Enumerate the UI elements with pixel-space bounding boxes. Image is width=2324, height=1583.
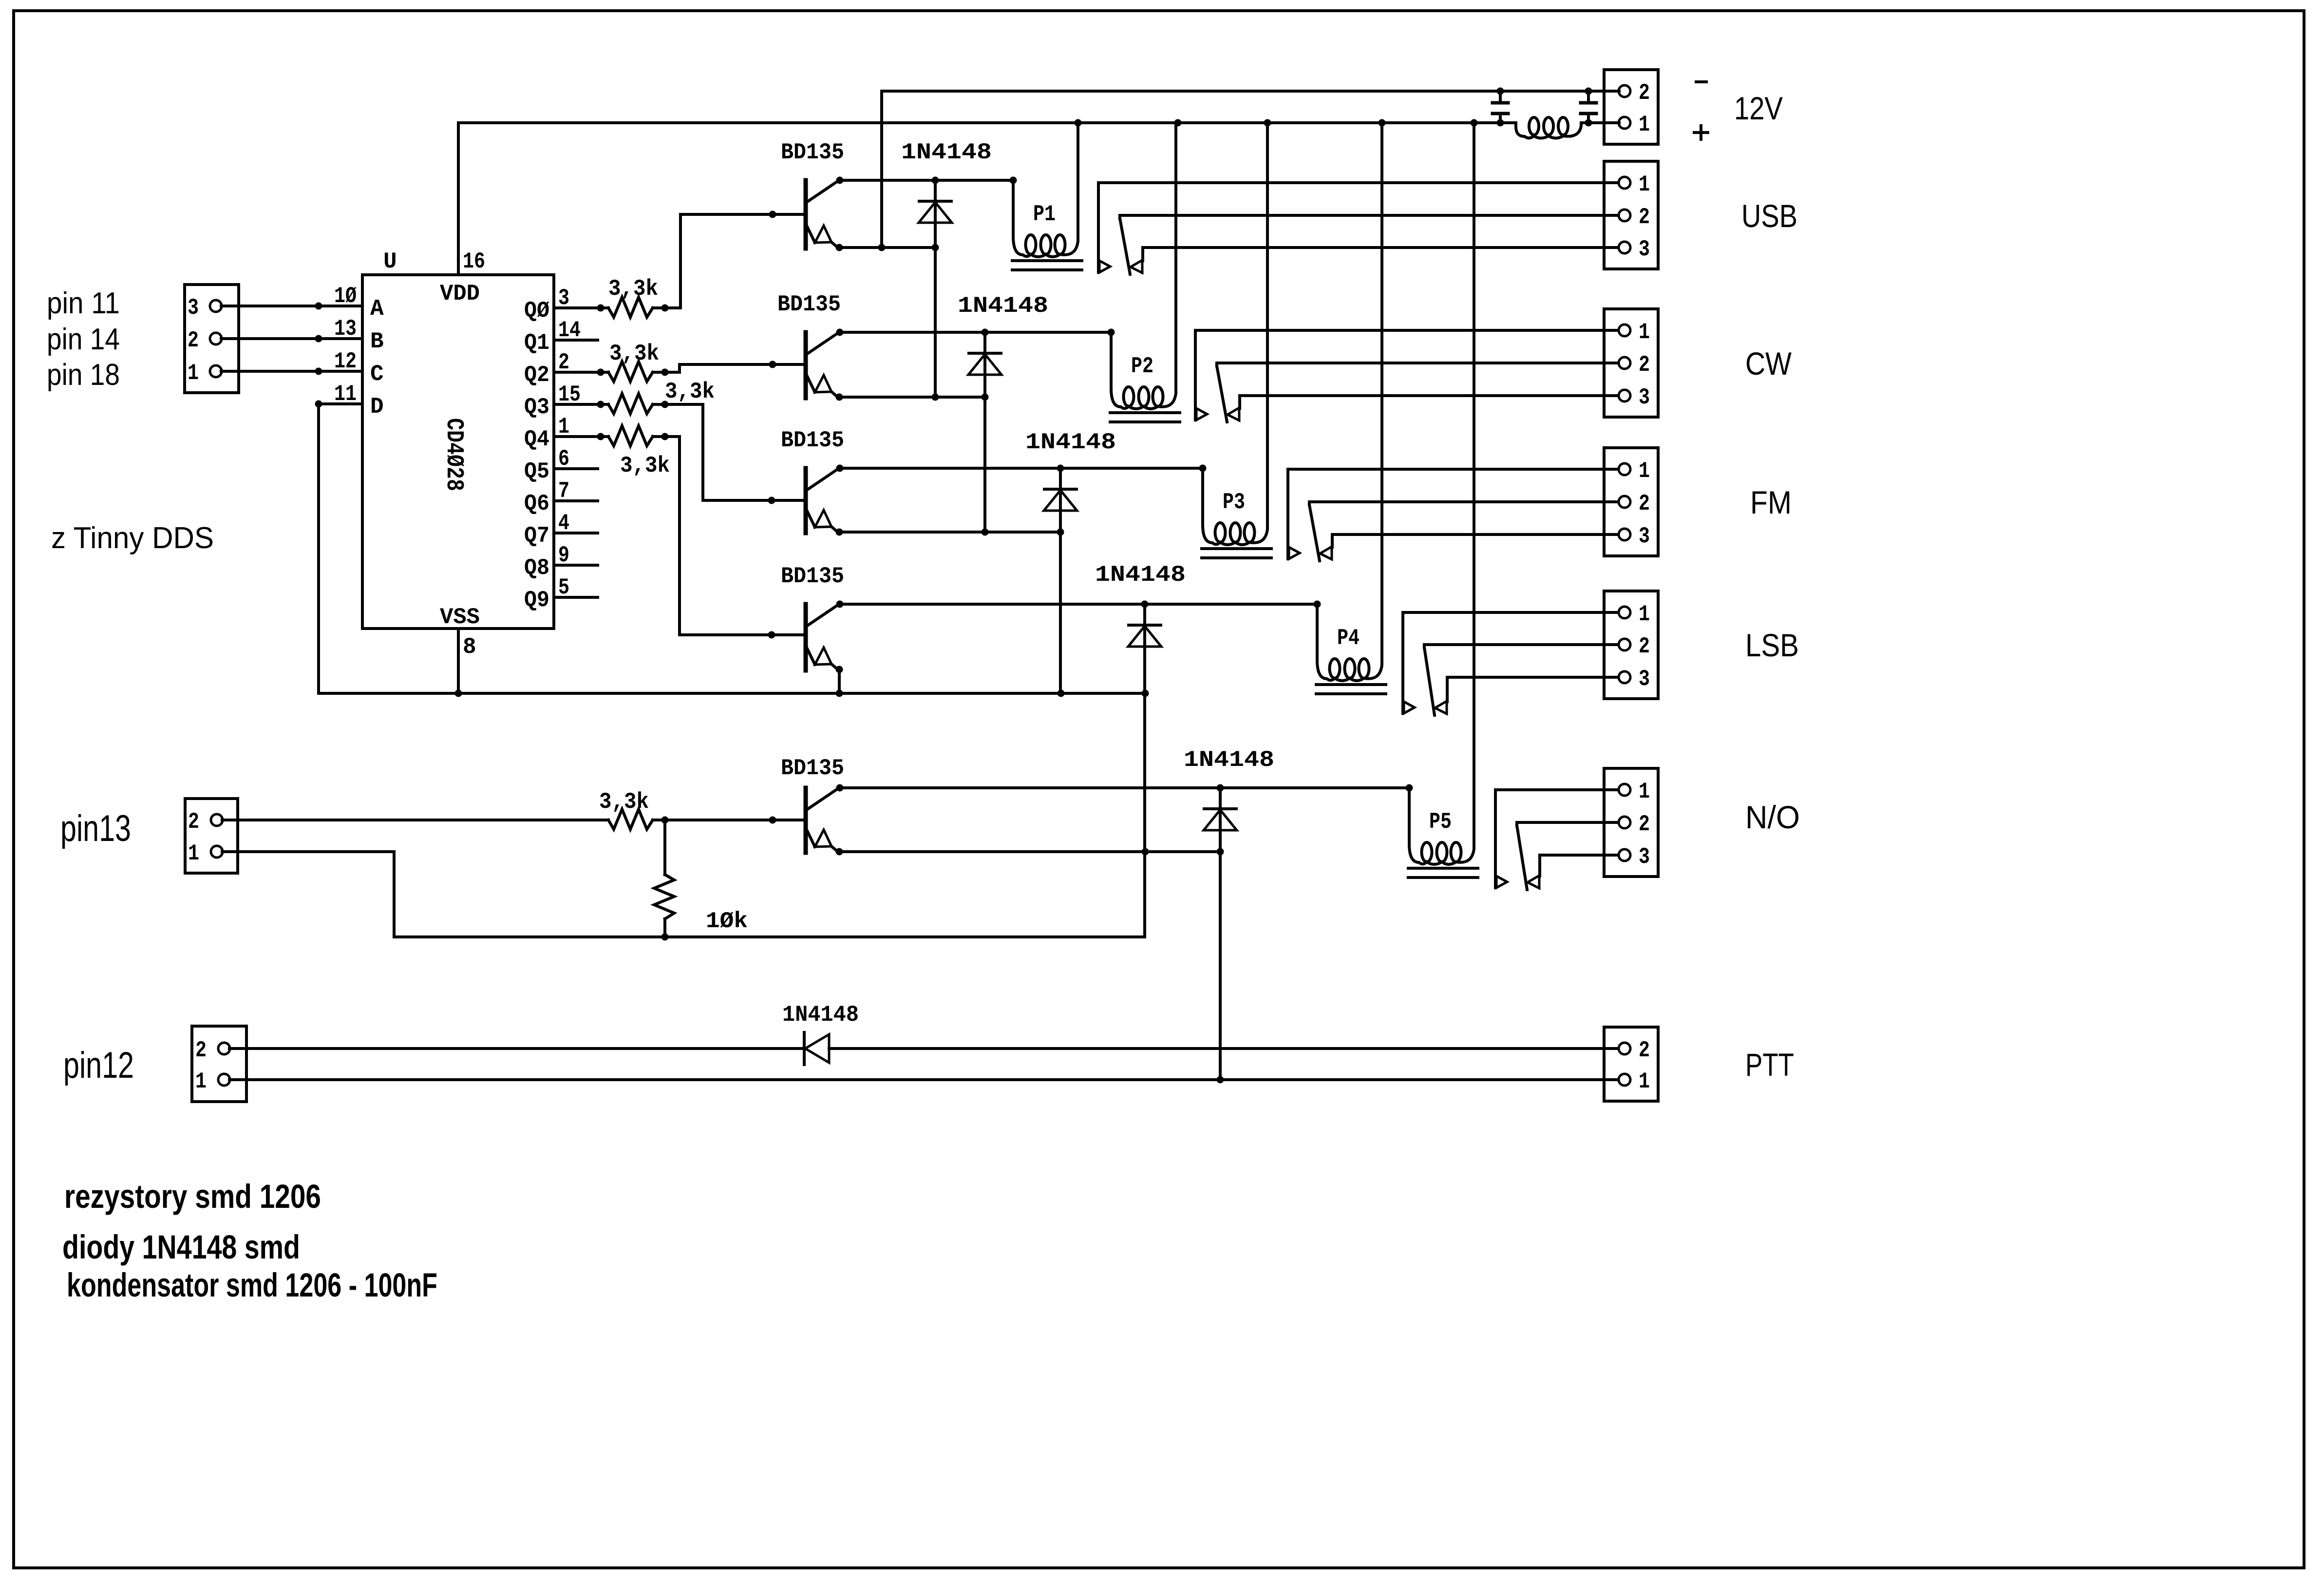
- svg-text:FM: FM: [1750, 484, 1792, 520]
- svg-text:CD4Ø28: CD4Ø28: [440, 418, 468, 491]
- capacitor C1 100nF: [1493, 91, 1508, 123]
- wire Q5 collector to P5: [840, 784, 1413, 792]
- label 12V: [1734, 90, 1783, 126]
- connector FM: [1604, 448, 1658, 556]
- svg-text:1Øk: 1Øk: [706, 909, 748, 934]
- label pin13: [60, 808, 131, 849]
- svg-text:P3: P3: [1223, 490, 1245, 515]
- svg-text:2: 2: [188, 809, 199, 835]
- wire Q1 stub: [554, 339, 598, 342]
- wires P2 contact to CW: [1195, 330, 1619, 396]
- wire pin13-1 loop: [222, 852, 1144, 937]
- connector pin12: [192, 1026, 246, 1102]
- svg-text:Q1: Q1: [524, 330, 549, 356]
- svg-text:BD135: BD135: [781, 140, 844, 165]
- svg-text:U: U: [383, 249, 397, 274]
- wire D / VSS ground bus: [315, 401, 1149, 697]
- svg-text:PTT: PTT: [1745, 1047, 1794, 1083]
- label LSB: [1745, 627, 1799, 663]
- diode D4 1N4148: [1095, 562, 1186, 937]
- svg-text:z Tinny DDS: z Tinny DDS: [51, 521, 214, 555]
- svg-text:QØ: QØ: [524, 298, 549, 324]
- svg-text:D: D: [370, 394, 384, 420]
- svg-text:2: 2: [1639, 634, 1650, 659]
- svg-text:2: 2: [1639, 205, 1650, 230]
- svg-text:1N4148: 1N4148: [901, 140, 992, 165]
- wire Q2 emitter: [839, 394, 989, 401]
- transistor Q3 BD135: [781, 428, 844, 536]
- svg-text:pin 18: pin 18: [47, 358, 120, 392]
- svg-text:13: 13: [334, 316, 357, 342]
- svg-text:2: 2: [1639, 491, 1650, 516]
- diode D2 1N4148: [958, 293, 1048, 532]
- wire R4 to Q4 base: [680, 437, 804, 639]
- label pin12: [63, 1045, 134, 1086]
- relay coil P1: [1012, 119, 1082, 270]
- resistor R4 3,3k: [608, 426, 680, 478]
- wire Q0: [554, 305, 608, 312]
- wire Q4: [554, 433, 608, 440]
- svg-text:P4: P4: [1337, 626, 1360, 651]
- wire A: [221, 303, 362, 310]
- connector CW: [1604, 309, 1658, 417]
- svg-text:BD135: BD135: [781, 428, 844, 453]
- wire Q6 stub: [554, 499, 598, 502]
- label USB: [1741, 198, 1797, 234]
- wire R3 to Q3 base: [703, 404, 804, 504]
- svg-text:3: 3: [1639, 524, 1650, 549]
- svg-text:1N4148: 1N4148: [1025, 430, 1116, 455]
- wires P4 contact to LSB: [1403, 612, 1619, 677]
- svg-text:1: 1: [1639, 779, 1650, 804]
- relay P1 contact: [1098, 183, 1143, 274]
- wire Q8 stub: [554, 564, 598, 567]
- svg-text:Q3: Q3: [524, 395, 549, 420]
- rail B (VDD rail to 12V pin1): [458, 119, 1619, 127]
- wires P1 contact to USB: [1098, 183, 1619, 248]
- wire PTT bottom: [229, 1078, 1619, 1081]
- transistor Q5 BD135: [781, 756, 844, 856]
- label minus: [1696, 80, 1706, 83]
- svg-text:USB: USB: [1741, 198, 1797, 234]
- svg-text:rezystory smd 1206: rezystory smd 1206: [64, 1178, 321, 1215]
- label N/O: [1745, 799, 1800, 835]
- svg-text:Q5: Q5: [524, 459, 549, 484]
- svg-text:B: B: [370, 329, 384, 354]
- svg-text:Q7: Q7: [524, 523, 549, 549]
- connector USB: [1604, 161, 1658, 269]
- svg-text:1: 1: [195, 1069, 207, 1094]
- svg-text:P1: P1: [1033, 202, 1056, 227]
- svg-text:1Ø: 1Ø: [334, 284, 357, 309]
- note capacitor: [67, 1266, 437, 1304]
- label pin 18: [47, 358, 120, 392]
- relay coil P4: [1316, 119, 1386, 694]
- transistor Q1 BD135: [781, 140, 844, 251]
- wire pin8 VSS: [457, 629, 460, 693]
- wire Q7 stub: [554, 532, 598, 534]
- relay coil P3: [1202, 119, 1271, 558]
- svg-text:2: 2: [1639, 352, 1650, 378]
- wire emitter rail riser: [880, 91, 883, 248]
- diode D1 1N4148: [901, 140, 992, 397]
- connector N/O: [1604, 768, 1658, 877]
- wire Q4 collector to P4: [840, 601, 1321, 608]
- svg-text:1: 1: [1639, 172, 1650, 197]
- svg-text:LSB: LSB: [1745, 627, 1799, 663]
- svg-text:2: 2: [188, 328, 199, 353]
- svg-text:Q4: Q4: [524, 427, 549, 452]
- connector PTT: [1604, 1027, 1658, 1101]
- label PTT: [1745, 1047, 1794, 1083]
- connector LSB: [1604, 591, 1658, 699]
- svg-text:3,3k: 3,3k: [599, 789, 649, 815]
- svg-text:2: 2: [1639, 80, 1650, 106]
- svg-text:1N4148: 1N4148: [958, 293, 1048, 319]
- svg-text:Q6: Q6: [524, 491, 549, 516]
- svg-text:N/O: N/O: [1745, 799, 1800, 835]
- svg-text:8: 8: [463, 634, 476, 660]
- svg-text:16: 16: [463, 249, 485, 274]
- connector 12V: [1604, 70, 1658, 144]
- svg-text:11: 11: [334, 381, 357, 407]
- wire pin13-2 to R5: [222, 819, 608, 821]
- wire Q3 emitter: [839, 529, 1064, 536]
- svg-text:3,3k: 3,3k: [620, 453, 670, 478]
- svg-text:pin13: pin13: [60, 808, 131, 849]
- svg-text:1: 1: [1639, 112, 1650, 137]
- svg-text:1: 1: [188, 841, 199, 866]
- wire Q9 stub: [554, 596, 598, 599]
- wire pin16 VDD: [457, 123, 460, 275]
- resistor R1 3,3k: [608, 276, 680, 317]
- IC U CD4028: [334, 249, 581, 660]
- relay P4 contact: [1403, 612, 1447, 715]
- connector J1 (3-pin input): [185, 285, 239, 393]
- relay P5 contact: [1495, 790, 1540, 890]
- svg-text:2: 2: [1639, 1038, 1650, 1063]
- wire R1 to Q1 base: [680, 211, 804, 308]
- svg-text:Q9: Q9: [524, 588, 549, 613]
- transistor Q4 BD135: [781, 564, 844, 673]
- svg-text:pin 14: pin 14: [47, 323, 120, 356]
- wire Q5 stub: [554, 467, 598, 470]
- svg-text:3,3k: 3,3k: [665, 379, 715, 404]
- svg-text:Q8: Q8: [524, 555, 549, 581]
- svg-text:diody 1N4148 smd: diody 1N4148 smd: [62, 1228, 300, 1266]
- wire R2 to Q2 base: [680, 361, 804, 373]
- relay coil P5: [1408, 119, 1478, 878]
- capacitor C2 100nF: [1581, 91, 1596, 123]
- svg-text:3: 3: [1639, 385, 1650, 410]
- svg-text:12: 12: [334, 349, 357, 374]
- resistor R5 3,3k: [599, 789, 804, 829]
- svg-text:3,3k: 3,3k: [608, 276, 658, 302]
- label pin 11: [47, 286, 120, 320]
- wire Q4 emitter to bus: [838, 669, 841, 693]
- svg-text:BD135: BD135: [777, 292, 841, 317]
- svg-text:A: A: [370, 296, 384, 322]
- svg-text:3: 3: [1639, 667, 1650, 692]
- wires P3 contact to FM: [1288, 469, 1619, 534]
- wire Q3: [554, 401, 608, 408]
- svg-text:BD135: BD135: [781, 564, 844, 589]
- svg-text:1N4148: 1N4148: [782, 1002, 859, 1028]
- wires P5 contact to N/O: [1495, 790, 1619, 855]
- diode D5 1N4148: [1184, 747, 1274, 1084]
- inductor L1: [1516, 117, 1588, 138]
- svg-text:1: 1: [1639, 1069, 1650, 1094]
- wire Q2 collector to P2: [840, 329, 1115, 336]
- svg-text:VDD: VDD: [440, 281, 480, 306]
- label FM: [1750, 484, 1792, 520]
- resistor R2 3,3k: [608, 341, 680, 381]
- note resistors: [64, 1178, 321, 1215]
- svg-text:1: 1: [188, 361, 199, 386]
- diode D3 1N4148: [1025, 430, 1116, 693]
- wire PTT top: [229, 1047, 1619, 1050]
- wire C: [221, 368, 362, 375]
- svg-text:BD135: BD135: [781, 756, 844, 781]
- svg-text:pin12: pin12: [63, 1045, 134, 1086]
- svg-text:VSS: VSS: [440, 605, 480, 630]
- label pin 14: [47, 323, 120, 356]
- rail A (emitter rail to 12V pin2): [882, 88, 1619, 95]
- svg-text:CW: CW: [1745, 345, 1792, 381]
- wire Q1 collector to P1: [840, 177, 1017, 184]
- svg-text:P2: P2: [1131, 354, 1153, 379]
- svg-text:1: 1: [1639, 602, 1650, 627]
- wire Q2: [554, 369, 608, 376]
- svg-text:1: 1: [1639, 458, 1650, 484]
- relay coil P2: [1110, 119, 1182, 422]
- resistor R6 10k: [654, 820, 748, 941]
- svg-text:2: 2: [195, 1038, 207, 1063]
- label z Tinny DDS: [51, 521, 214, 555]
- wire B: [221, 335, 362, 343]
- svg-text:1N4148: 1N4148: [1095, 562, 1186, 588]
- svg-text:3: 3: [1639, 237, 1650, 262]
- svg-text:12V: 12V: [1734, 90, 1783, 126]
- transistor Q2 BD135: [777, 292, 844, 401]
- wire Q3 collector to P3: [840, 465, 1207, 472]
- label CW: [1745, 345, 1792, 381]
- note diodes: [62, 1228, 300, 1266]
- diode D6 1N4148 (PTT): [782, 1002, 859, 1065]
- svg-text:1: 1: [1639, 320, 1650, 345]
- relay P3 contact: [1288, 469, 1332, 561]
- svg-text:2: 2: [1639, 812, 1650, 837]
- resistor R3 3,3k: [608, 379, 715, 414]
- svg-text:kondensator smd 1206 - 100nF: kondensator smd 1206 - 100nF: [67, 1266, 437, 1304]
- svg-text:Q2: Q2: [524, 362, 549, 388]
- wire Q1 emitter: [839, 244, 939, 251]
- connector pin13: [185, 799, 238, 873]
- svg-text:3,3k: 3,3k: [609, 341, 659, 366]
- label plus: [1694, 126, 1708, 139]
- svg-text:3: 3: [1639, 844, 1650, 870]
- svg-text:3: 3: [188, 295, 199, 321]
- svg-text:C: C: [370, 362, 384, 387]
- svg-text:1N4148: 1N4148: [1184, 747, 1274, 773]
- wire Q5 emitter: [839, 848, 1224, 856]
- svg-text:P5: P5: [1429, 809, 1452, 835]
- svg-text:pin 11: pin 11: [47, 286, 120, 320]
- relay P2 contact: [1195, 330, 1240, 422]
